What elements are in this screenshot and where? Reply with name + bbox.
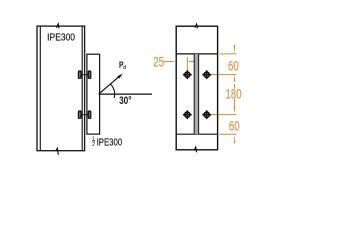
svg-text:60: 60 [228, 58, 239, 74]
svg-text:d: d [123, 65, 126, 72]
svg-text:25: 25 [153, 53, 164, 69]
svg-text:2: 2 [92, 142, 95, 148]
svg-text:60: 60 [229, 118, 240, 134]
svg-text:30°: 30° [119, 95, 132, 107]
svg-text:IPE300: IPE300 [97, 137, 123, 148]
svg-text:IPE300: IPE300 [47, 32, 75, 43]
svg-text:180: 180 [226, 86, 242, 102]
